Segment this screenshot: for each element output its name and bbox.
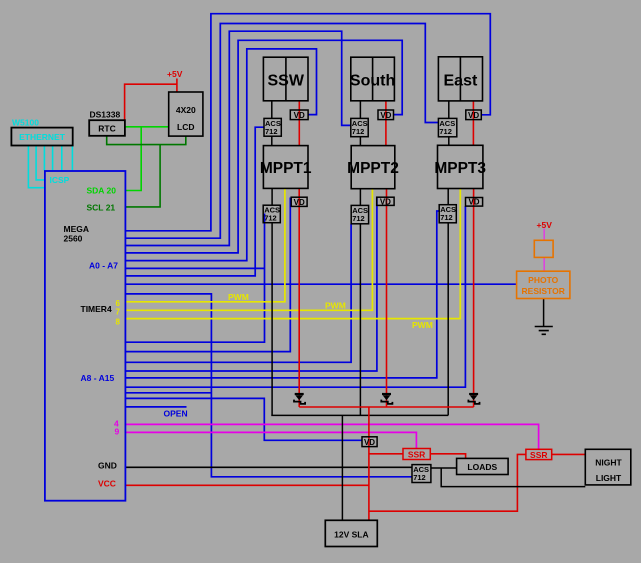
ground symbol xyxy=(535,327,553,335)
svg-text:712: 712 xyxy=(352,127,365,136)
wire black ground bus xyxy=(271,414,448,416)
SSR2 box xyxy=(526,449,552,459)
wire SDA bright green RTC-LCD xyxy=(125,126,169,128)
svg-text:7: 7 xyxy=(116,308,121,317)
ACS712 box SSW xyxy=(264,118,281,136)
VD box MPPT3 lower xyxy=(466,198,483,207)
wire red MPPT2 to VD to diode D2 xyxy=(386,189,388,407)
svg-text:W5100: W5100 xyxy=(12,118,39,128)
svg-text:712: 712 xyxy=(265,127,278,136)
svg-text:A8 - A15: A8 - A15 xyxy=(81,373,115,383)
svg-text:VD: VD xyxy=(380,111,391,120)
svg-text:SSR: SSR xyxy=(408,450,425,460)
VD box bottom xyxy=(362,437,377,447)
svg-text:LCD: LCD xyxy=(177,122,194,132)
svg-text:VD: VD xyxy=(294,198,305,207)
LOADS box xyxy=(457,458,509,474)
East panel box xyxy=(438,57,482,101)
svg-text:LIGHT: LIGHT xyxy=(596,473,622,483)
wire VCC from MEGA to battery red net xyxy=(126,484,369,486)
svg-text:712: 712 xyxy=(413,473,426,482)
svg-text:+5V: +5V xyxy=(167,69,183,79)
wire PWM pin7 to MPPT2 xyxy=(126,189,373,310)
ACS712 box bottom xyxy=(412,465,431,483)
wire A2 from MEGA to South ACS712 xyxy=(126,31,351,245)
NIGHT LIGHT box xyxy=(585,449,631,485)
wire red SSR1 to LOADS xyxy=(430,454,465,459)
wire digital pin to bottom ACS712 xyxy=(126,294,413,477)
wire A8 to MPPT1 lower ACS712 vertical xyxy=(126,214,265,343)
resistor box R1 xyxy=(534,240,553,257)
wire black South to ACS712 to MPPT2 xyxy=(359,101,361,146)
svg-text:2560: 2560 xyxy=(64,234,83,244)
wire red battery positive net xyxy=(369,407,526,520)
wire A12 to MPPT3 lower ACS712 xyxy=(126,211,440,378)
svg-text:MPPT3: MPPT3 xyxy=(434,160,486,177)
wire SDA bright green to MEGA pin 20 xyxy=(125,127,141,191)
wire magenta +5V to resistor to photo resistor xyxy=(543,229,545,272)
svg-text:VD: VD xyxy=(364,438,375,447)
svg-text:712: 712 xyxy=(264,214,277,223)
svg-text:SSW: SSW xyxy=(267,73,304,90)
svg-text:A0 - A7: A0 - A7 xyxy=(89,261,118,271)
svg-text:PWM: PWM xyxy=(228,292,249,302)
svg-text:VD: VD xyxy=(380,197,391,206)
VD box MPPT1 lower xyxy=(291,197,307,206)
diode D3 xyxy=(468,394,479,404)
ETHERNET box xyxy=(11,128,72,146)
RTC box xyxy=(89,120,125,136)
svg-text:+5V: +5V xyxy=(537,220,553,230)
wire pin4 magenta to SSR2 xyxy=(126,424,539,449)
wire A5 from MEGA to MPPT1 lower ACS712 xyxy=(126,267,265,269)
SSR1 box xyxy=(403,449,430,460)
wire red East to VD to MPPT3 xyxy=(472,101,474,145)
wire A13b to bottom ACS712 junction xyxy=(126,392,212,394)
svg-text:PWM: PWM xyxy=(412,320,433,330)
wire red SSR2 to NIGHT LIGHT xyxy=(552,453,586,455)
wire red diode output bus xyxy=(299,406,473,408)
wire black East to ACS712 to MPPT3 xyxy=(448,101,450,145)
svg-text:ICSP: ICSP xyxy=(50,175,70,185)
MEGA 2560 box U1 xyxy=(45,171,126,501)
wire A11 to MPPT2 lower VD xyxy=(126,198,377,371)
VD box East xyxy=(466,110,482,120)
svg-text:MEGA: MEGA xyxy=(64,224,90,234)
svg-text:VD: VD xyxy=(468,198,479,207)
VD box SSW xyxy=(290,110,308,120)
wire red SSW to VD to MPPT1 xyxy=(298,101,300,146)
svg-text:712: 712 xyxy=(440,213,453,222)
svg-text:9: 9 xyxy=(115,427,120,437)
wire A14 to bottom VD xyxy=(126,398,363,440)
VD box South xyxy=(378,110,394,120)
MPPT3 box xyxy=(438,145,483,188)
wire pin9 magenta to SSR1 xyxy=(126,432,417,448)
wire A4 from MEGA to SSW VD xyxy=(126,49,317,261)
wire GND from MEGA to bottom ACS712 xyxy=(126,466,413,468)
label ACS 712 South xyxy=(352,119,368,136)
wire A15 OPEN stub xyxy=(126,406,187,408)
svg-text:OPEN: OPEN xyxy=(164,409,188,419)
PHOTO RESISTOR box xyxy=(517,271,570,298)
wire A3 from MEGA to South VD xyxy=(126,40,403,253)
wire black MPPT3 to lower ACS712 to bus xyxy=(447,189,449,416)
label ACS 712 bottom xyxy=(413,465,429,482)
diode D2 xyxy=(381,394,392,404)
svg-text:712: 712 xyxy=(439,127,452,136)
VD box MPPT2 lower xyxy=(377,197,394,205)
wire A6 from MEGA to SSW ACS712 xyxy=(126,127,265,276)
svg-text:South: South xyxy=(350,73,395,90)
ACS712 box East xyxy=(438,118,456,136)
svg-text:RESISTOR: RESISTOR xyxy=(522,286,565,296)
svg-text:TIMER4: TIMER4 xyxy=(81,304,112,314)
svg-text:RTC: RTC xyxy=(98,124,115,134)
wire PWM pin6 to MPPT1 xyxy=(126,189,285,302)
svg-text:VD: VD xyxy=(468,111,479,120)
wire SCL dark green to MEGA pin 21 xyxy=(125,145,160,207)
diode D1 xyxy=(294,394,305,404)
wire black bottom ACS712 to LOADS xyxy=(431,467,457,469)
label ACS 712 MPPT2 lower xyxy=(352,206,368,223)
svg-text:MPPT2: MPPT2 xyxy=(347,160,399,177)
ACS712 box MPPT3 lower xyxy=(439,205,456,223)
MPPT2 box xyxy=(351,146,395,189)
wire black bus to 12V SLA battery xyxy=(341,415,343,520)
label ACS 712 SSW xyxy=(265,119,281,136)
wire A13 to MPPT3 lower VD xyxy=(126,206,466,387)
ACS712 box MPPT2 lower xyxy=(351,205,368,223)
svg-text:12V SLA: 12V SLA xyxy=(334,529,369,539)
SSW panel box xyxy=(263,57,308,101)
12V SLA battery box xyxy=(325,520,377,546)
svg-text:PWM: PWM xyxy=(325,301,346,311)
svg-text:SCL 21: SCL 21 xyxy=(87,203,116,213)
wire +5V red to LCD and RTC xyxy=(125,79,177,121)
wire black photo resistor to ground xyxy=(543,299,545,327)
wire red South to VD to MPPT2 xyxy=(385,101,387,146)
label ACS 712 East xyxy=(439,119,455,136)
svg-text:VCC: VCC xyxy=(98,479,116,489)
wire red MPPT3 to VD to diode D3 xyxy=(473,189,475,408)
wire ethernet cyan bundle to ICSP xyxy=(28,146,72,188)
wire A7 from MEGA to photo resistor xyxy=(126,283,517,285)
wire A0 from MEGA to East VD (top outer U) xyxy=(126,14,491,231)
svg-text:DS1338: DS1338 xyxy=(90,110,121,120)
svg-text:PHOTO: PHOTO xyxy=(528,275,558,285)
svg-text:712: 712 xyxy=(352,214,365,223)
MPPT1 box xyxy=(263,146,308,189)
svg-text:4X20: 4X20 xyxy=(176,105,196,115)
svg-text:LOADS: LOADS xyxy=(467,462,497,472)
wire A1 from MEGA to East ACS712 xyxy=(126,24,439,239)
label ACS 712 MPPT1 lower xyxy=(264,206,280,223)
LCD box xyxy=(169,92,203,136)
wire PWM pin8 to MPPT3 xyxy=(126,189,461,319)
svg-text:SSR: SSR xyxy=(530,450,547,460)
svg-text:ETHERNET: ETHERNET xyxy=(19,132,66,142)
wire SCL dark green RTC bottom to LCD bottom xyxy=(107,136,186,145)
wire A9 to MPPT1 lower VD xyxy=(126,198,291,352)
wire black MPPT1 to lower ACS712 to bus xyxy=(271,188,273,415)
wire A10 to MPPT2 lower ACS712 xyxy=(126,224,352,362)
wire black loads net to NIGHT LIGHT xyxy=(441,468,585,487)
svg-text:8: 8 xyxy=(116,318,121,327)
label ACS 712 MPPT3 lower xyxy=(440,205,456,222)
svg-text:SDA 20: SDA 20 xyxy=(87,186,117,196)
South panel box xyxy=(351,57,395,101)
svg-text:VD: VD xyxy=(294,111,305,120)
wire black SSW to ACS712 to MPPT1 xyxy=(271,101,273,146)
ACS712 box South xyxy=(351,118,368,136)
svg-text:East: East xyxy=(444,73,478,90)
svg-text:NIGHT: NIGHT xyxy=(595,458,622,468)
wire black MPPT2 to lower ACS712 to bus xyxy=(359,189,361,416)
ACS712 box MPPT1 lower xyxy=(263,205,280,223)
svg-text:MPPT1: MPPT1 xyxy=(260,160,312,177)
wire red MPPT1 to VD to diode D1 xyxy=(298,188,300,407)
svg-text:GND: GND xyxy=(98,461,117,471)
